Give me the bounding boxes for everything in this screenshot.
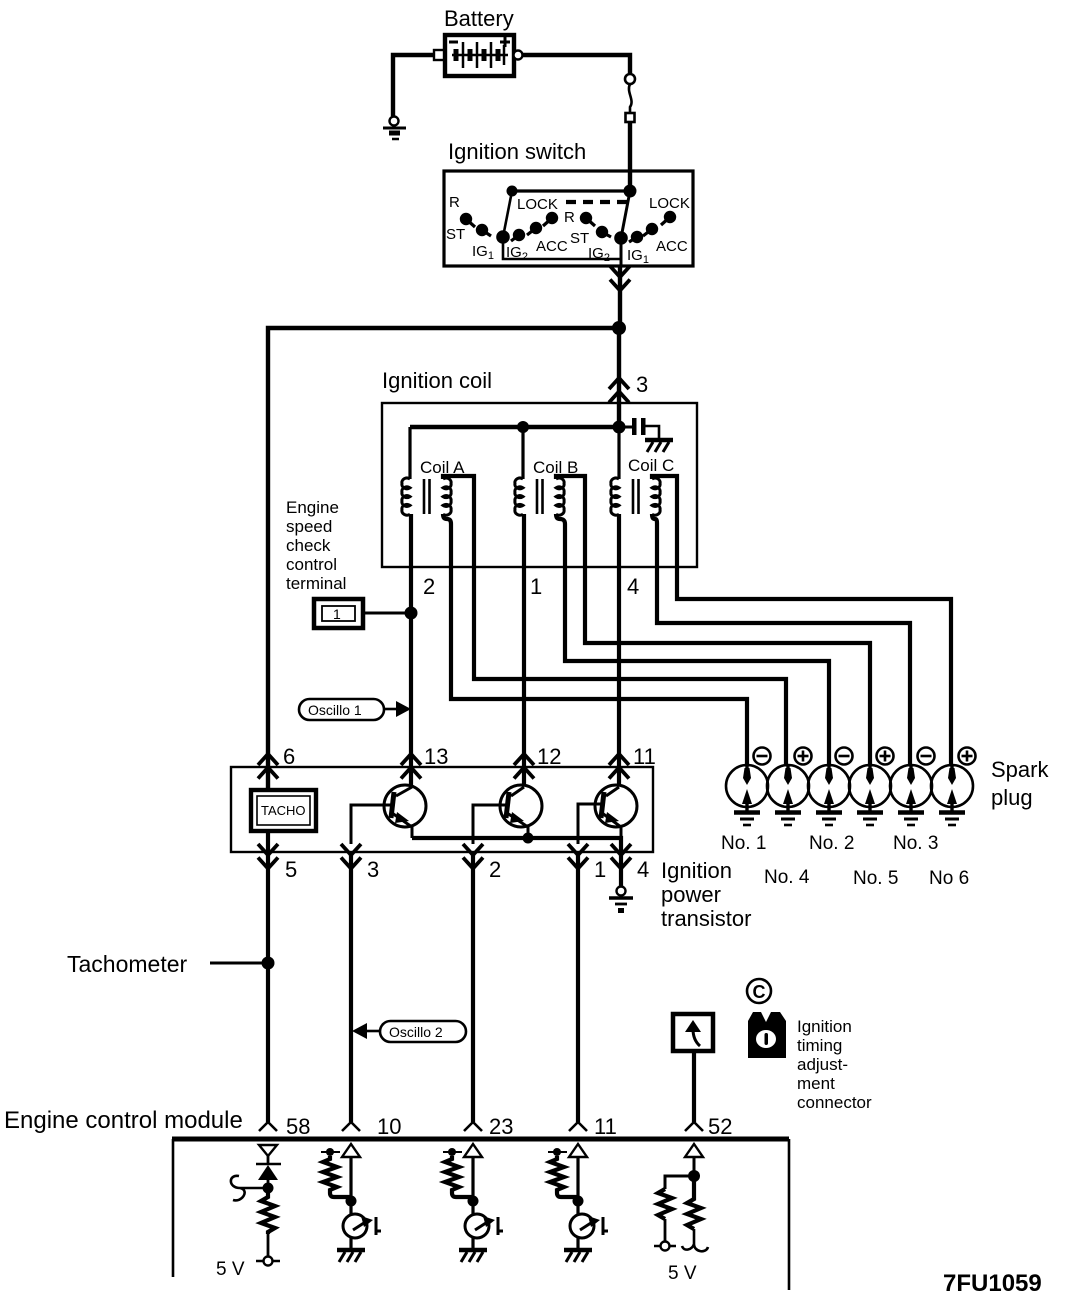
ECM connector Y 52 [685, 1122, 703, 1131]
wire R2 to 5V [664, 1219, 667, 1242]
svg-text:13: 13 [424, 744, 448, 769]
ECM 11 input triangle [569, 1144, 587, 1157]
switch wiper arm right [621, 191, 630, 266]
node emitter bus [523, 833, 534, 844]
svg-text:No. 4: No. 4 [764, 867, 810, 888]
ground condenser [645, 440, 673, 452]
svg-text:No 6: No 6 [929, 868, 969, 889]
ECM connector Y 58 [259, 1122, 277, 1131]
HT lead coil A bottom to spark plug 1 [443, 514, 747, 766]
wire switch output down [618, 266, 622, 328]
ECM connector Y 23 [464, 1122, 482, 1131]
connector chevrons pin 3 [341, 844, 361, 869]
svg-text:Coil C: Coil C [628, 456, 674, 475]
svg-text:No. 2: No. 2 [809, 833, 854, 854]
connector chevrons pin 1 [568, 844, 588, 869]
wire battery negative to ground [393, 55, 434, 116]
wire Q3 base pin 1 [578, 804, 602, 844]
diode D1 [256, 1164, 281, 1180]
Oscillo 2 tag [352, 1021, 466, 1042]
svg-text:2: 2 [489, 857, 501, 882]
coil B primary feed [521, 427, 524, 479]
svg-text:C: C [753, 982, 766, 1002]
wire feed to ignition coil [617, 328, 621, 427]
wire pin 1 to ECM 11 [576, 852, 580, 1122]
terminal 5V right [654, 1242, 676, 1251]
node feed right [624, 185, 637, 198]
svg-text:Ignition coil: Ignition coil [382, 368, 492, 393]
emitter bus [412, 838, 621, 852]
svg-text:10: 10 [377, 1114, 401, 1139]
svg-text:58: 58 [286, 1114, 310, 1139]
svg-text:connector: connector [797, 1093, 872, 1112]
connector chevrons coil pin 3 [609, 378, 629, 403]
coil A primary feed [408, 427, 411, 479]
wire check terminal to pin2 net [363, 612, 411, 615]
svg-text:5 V: 5 V [216, 1259, 245, 1280]
polarity minus plug 5 [918, 748, 935, 765]
polarity plus plug 4 [877, 748, 894, 765]
svg-text:speed: speed [286, 517, 332, 536]
spark plug 6 [931, 765, 973, 825]
fusible link [625, 74, 635, 122]
battery plus mark [500, 37, 510, 47]
node feed left [507, 186, 518, 197]
svg-text:3: 3 [367, 857, 379, 882]
svg-text:Ignition: Ignition [661, 858, 732, 883]
ECM box top [172, 1137, 789, 1142]
svg-text:Tachometer: Tachometer [67, 951, 188, 977]
contacts right cluster [581, 212, 674, 243]
ECM connector Y 10 [342, 1122, 360, 1131]
svg-text:4: 4 [637, 857, 649, 882]
ground cell 10 [337, 1250, 365, 1262]
svg-text:11: 11 [633, 744, 656, 769]
wire pin 2 to ECM 23 [471, 852, 475, 1122]
resistor R3 [687, 1176, 701, 1229]
wire tachometer stub [210, 962, 268, 965]
switch feed line [512, 189, 630, 192]
power transistor unit box [231, 767, 653, 852]
coil A transformer [402, 478, 451, 515]
resistor R2 [658, 1189, 672, 1219]
svg-text:ACC: ACC [536, 238, 568, 255]
svg-text:5 V: 5 V [668, 1263, 697, 1284]
transistor Q1 [384, 785, 426, 838]
svg-text:terminal: terminal [286, 574, 346, 593]
wire R3 hook [682, 1229, 708, 1251]
battery negative terminal [434, 50, 444, 60]
spark plug 3 [808, 765, 850, 825]
svg-text:12: 12 [537, 744, 561, 769]
wire fusible link to ignition switch [628, 122, 632, 191]
svg-text:Spark: Spark [991, 757, 1049, 782]
Oscillo 1 tag [299, 699, 411, 720]
svg-text:2: 2 [423, 574, 435, 599]
coil C primary feed [617, 427, 620, 479]
ECM cell 10 [321, 1148, 381, 1249]
svg-text:52: 52 [708, 1114, 732, 1139]
svg-text:ST: ST [570, 230, 589, 247]
svg-text:1: 1 [594, 857, 606, 882]
connector chevrons pin 11 [609, 754, 629, 779]
svg-text:1: 1 [333, 606, 341, 622]
coil supply bus [410, 425, 619, 429]
spark plug 4 [849, 765, 891, 825]
ECM 58 input triangle [259, 1145, 277, 1156]
battery positive terminal [514, 51, 523, 60]
svg-text:ACC: ACC [656, 238, 688, 255]
ECM cell 11 [548, 1148, 608, 1249]
coil C transformer [611, 478, 660, 515]
svg-text:Oscillo 2: Oscillo 2 [389, 1024, 443, 1040]
svg-text:adjust-: adjust- [797, 1055, 848, 1074]
svg-text:LOCK: LOCK [517, 196, 558, 213]
svg-text:Engine: Engine [286, 498, 339, 517]
svg-text:No. 5: No. 5 [853, 868, 898, 889]
wire 52 internal [693, 1157, 696, 1175]
wire 58 internal [267, 1156, 270, 1163]
ECM connector Y 11 [569, 1122, 587, 1131]
svg-text:ment: ment [797, 1074, 835, 1093]
svg-text:1: 1 [530, 574, 542, 599]
battery minus mark [449, 41, 458, 44]
connector chevrons pin 12 [514, 754, 534, 779]
spark plug 2 [767, 765, 809, 825]
HT lead coil B bottom to spark plug 3 [556, 514, 829, 766]
HT lead coil B top to spark plug 4 [556, 476, 870, 766]
svg-text:Engine control module: Engine control module [4, 1107, 243, 1134]
svg-text:LOCK: LOCK [649, 195, 690, 212]
coil B primary out wire pin 1 [522, 514, 526, 786]
svg-text:Ignition: Ignition [797, 1017, 852, 1036]
battery cells [452, 42, 508, 68]
coil A primary out wire pin 2 [409, 514, 413, 786]
switch wiper arm left [503, 191, 512, 237]
condenser C1 [625, 418, 659, 438]
HT lead coil C top to spark plug 6 [652, 476, 951, 766]
resistor R1 [261, 1188, 275, 1234]
ignition timing adjustment connector icon [748, 1012, 786, 1058]
wire Q1 base pin 3 [351, 805, 392, 844]
ignition coil box [382, 403, 697, 567]
svg-text:transistor: transistor [661, 906, 751, 931]
ground cell 23 [459, 1250, 487, 1262]
connector chevrons pin 2 [463, 844, 483, 869]
ECM box right [788, 1139, 791, 1290]
ECM 52 input triangle [685, 1144, 703, 1157]
node 58 [263, 1183, 274, 1194]
connector chevrons pin 4 [611, 844, 631, 869]
wire 52 left branch [665, 1176, 694, 1189]
coil C primary out wire pin 4 [617, 514, 621, 786]
wire R1 to 5V [267, 1234, 270, 1257]
battery B1 box [445, 35, 514, 76]
svg-text:TACHO: TACHO [261, 803, 306, 818]
ECM 10 input triangle [342, 1144, 360, 1157]
ground transistor unit [609, 887, 633, 914]
internal hook 58 [231, 1176, 268, 1201]
svg-text:23: 23 [489, 1114, 513, 1139]
connector chevrons pin 6 [258, 754, 278, 779]
HT lead coil C bottom to spark plug 5 [652, 514, 910, 766]
wire Q2 base pin 2 [473, 805, 507, 844]
polarity plus plug 2 [795, 748, 812, 765]
wire tacho out [266, 831, 270, 1122]
wire pin 4 to ground [619, 852, 623, 887]
terminal 5V left [256, 1257, 280, 1266]
svg-text:Battery: Battery [444, 6, 514, 31]
node 52 [688, 1170, 700, 1182]
ECM cell 23 [443, 1148, 503, 1249]
spark plug 5 [890, 765, 932, 825]
svg-text:4: 4 [627, 574, 639, 599]
coil B transformer [515, 478, 564, 515]
svg-text:ST: ST [446, 226, 465, 243]
node bus coil B [517, 421, 529, 433]
ground battery [383, 117, 406, 140]
node main branch [612, 321, 626, 335]
wire main feed branch [268, 328, 619, 790]
svg-text:timing: timing [797, 1036, 842, 1055]
svg-text:R: R [564, 209, 575, 226]
svg-text:R: R [449, 194, 460, 211]
wire pin 3 to ECM 10 [349, 852, 353, 1122]
transistor Q2 [500, 785, 542, 838]
dashed lock link [566, 200, 628, 204]
svg-text:7FU1059: 7FU1059 [943, 1270, 1042, 1297]
connector chevrons below switch [610, 266, 630, 291]
svg-text:No. 3: No. 3 [893, 833, 938, 854]
svg-text:plug: plug [991, 785, 1033, 810]
HT lead coil A top to spark plug 2 [443, 476, 786, 766]
node tachometer [262, 957, 275, 970]
connector chevrons pin 13 [401, 754, 421, 779]
TACHO box [251, 790, 316, 831]
svg-text:power: power [661, 882, 721, 907]
spark plug 1 [726, 765, 768, 825]
contacts left cluster [461, 213, 556, 242]
svg-text:control: control [286, 555, 337, 574]
switch bottom link [503, 237, 620, 259]
svg-text:Oscillo 1: Oscillo 1 [308, 702, 362, 718]
svg-text:3: 3 [636, 372, 648, 397]
node bus coil C [613, 421, 626, 434]
ECM box left [172, 1139, 175, 1277]
connector chevrons pin 5 [258, 844, 278, 869]
ECM 23 input triangle [464, 1144, 482, 1157]
svg-text:6: 6 [283, 744, 295, 769]
transistor Q3 [595, 785, 637, 838]
svg-text:11: 11 [594, 1114, 617, 1139]
wire timing terminal to ECM 52 [692, 1051, 696, 1122]
engine speed check terminal box [314, 599, 363, 628]
polarity minus plug 1 [754, 748, 771, 765]
wire battery positive to fusible link [522, 55, 630, 74]
ground cell 11 [564, 1250, 592, 1262]
polarity minus plug 3 [836, 748, 853, 765]
svg-text:Ignition switch: Ignition switch [448, 139, 586, 164]
copyright mark [747, 979, 771, 1003]
svg-text:check: check [286, 536, 331, 555]
svg-text:No. 1: No. 1 [721, 833, 766, 854]
svg-text:5: 5 [285, 857, 297, 882]
polarity plus plug 6 [959, 748, 976, 765]
ignition switch box [444, 171, 693, 266]
node check terminal [405, 607, 418, 620]
wire diode to node [267, 1180, 270, 1188]
ignition timing check terminal box [673, 1014, 713, 1051]
